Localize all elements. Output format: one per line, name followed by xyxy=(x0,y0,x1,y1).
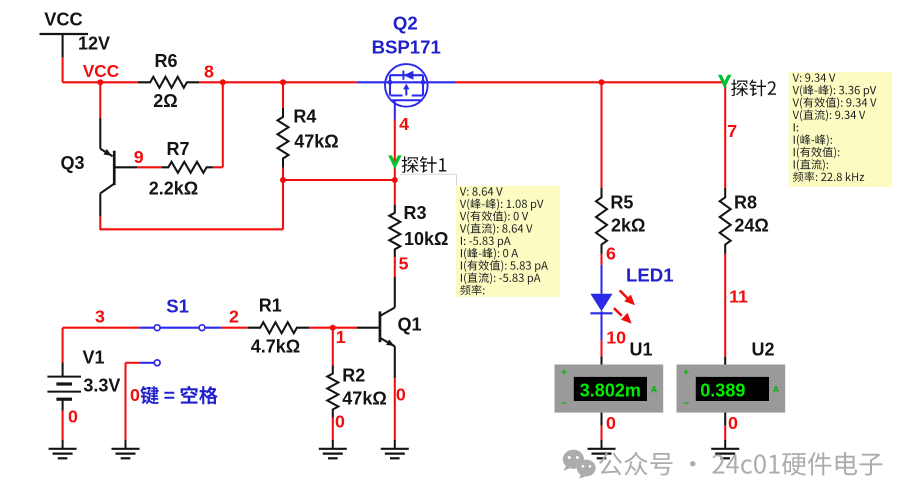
wire node 5 xyxy=(394,257,396,277)
svg-text:R6: R6 xyxy=(154,51,177,71)
junction R4 top xyxy=(280,79,286,85)
wire rail blue into Q2 xyxy=(357,81,385,83)
svg-text:R4: R4 xyxy=(293,107,316,127)
label key = space xyxy=(140,386,218,405)
wire Q3 collector down xyxy=(99,216,101,230)
LED LED1 xyxy=(590,265,673,341)
junction R4 bottom xyxy=(280,177,286,183)
svg-text:1: 1 xyxy=(336,327,346,347)
svg-text:0: 0 xyxy=(130,385,140,405)
wire R8 top xyxy=(724,82,726,188)
switch S1 xyxy=(140,296,222,331)
wire R4 bottom lead xyxy=(282,168,284,181)
svg-text:10kΩ: 10kΩ xyxy=(404,229,448,249)
svg-text:R2: R2 xyxy=(342,366,365,386)
svg-text:0: 0 xyxy=(396,384,406,404)
svg-text:24Ω: 24Ω xyxy=(734,216,768,236)
svg-text:4.7kΩ: 4.7kΩ xyxy=(251,336,300,356)
svg-text:7: 7 xyxy=(727,121,737,141)
svg-text:Q2: Q2 xyxy=(393,13,418,34)
svg-text:8: 8 xyxy=(204,62,214,82)
wire into U2 xyxy=(724,357,726,365)
wire R7 to node 8 xyxy=(213,82,223,167)
wire Q2 gate down xyxy=(394,120,396,180)
svg-text:2Ω: 2Ω xyxy=(153,91,177,111)
wire R5 top xyxy=(600,82,602,188)
svg-text:LED1: LED1 xyxy=(626,265,674,286)
ground V1 xyxy=(49,440,77,458)
svg-text:47kΩ: 47kΩ xyxy=(294,132,338,152)
svg-text:9: 9 xyxy=(134,147,144,167)
probe 探针2 xyxy=(718,75,776,96)
junction probe1 xyxy=(392,177,398,183)
ammeter U2 xyxy=(677,340,786,413)
svg-text:4: 4 xyxy=(399,114,409,134)
junction VCC/Q3 xyxy=(97,79,103,85)
wire node 9 xyxy=(137,166,162,168)
wire R2 top xyxy=(332,328,334,366)
svg-text:−: − xyxy=(561,399,567,410)
svg-text:3: 3 xyxy=(95,307,105,327)
svg-text:2kΩ: 2kΩ xyxy=(611,216,645,236)
svg-text:11: 11 xyxy=(729,287,748,307)
wire V1 top xyxy=(62,328,64,363)
ground R2 xyxy=(319,440,347,458)
ammeter U1 xyxy=(555,340,664,413)
ground U2 xyxy=(711,440,739,458)
watermark text xyxy=(599,452,883,476)
resistor R1 xyxy=(248,296,309,357)
probe1 data box xyxy=(456,186,560,297)
wire node 6 xyxy=(600,254,602,265)
svg-text:12V: 12V xyxy=(78,34,110,54)
transistor Q3 xyxy=(60,118,137,217)
wire top rail left xyxy=(63,81,138,83)
resistor R7 xyxy=(149,139,213,199)
svg-text:0: 0 xyxy=(606,413,616,433)
wire V1 bottom xyxy=(62,411,64,441)
power VCC 12V xyxy=(40,10,111,58)
svg-text:VCC: VCC xyxy=(44,10,82,30)
svg-text:0: 0 xyxy=(335,412,345,432)
wire R4 top lead xyxy=(282,82,284,108)
svg-text:V1: V1 xyxy=(83,348,105,368)
resistor R5 xyxy=(596,188,645,254)
battery V1 3.3V xyxy=(47,348,120,411)
svg-text:VCC: VCC xyxy=(83,61,119,81)
wire Q3 emitter up xyxy=(99,82,101,118)
resistor R4 xyxy=(278,107,339,168)
probe 探针1 xyxy=(388,155,446,173)
resistor R3 xyxy=(389,203,448,257)
svg-text:Q1: Q1 xyxy=(398,315,422,335)
resistor R2 xyxy=(327,366,386,418)
svg-text:6: 6 xyxy=(606,244,616,264)
svg-text:Q3: Q3 xyxy=(60,153,84,173)
svg-text:0: 0 xyxy=(728,413,738,433)
wire rail right to probe2 corner xyxy=(455,81,725,83)
wire node 2 xyxy=(222,327,248,329)
svg-text:2.2kΩ: 2.2kΩ xyxy=(149,179,198,199)
resistor R6 xyxy=(138,51,200,111)
wire node 8 rail xyxy=(199,81,356,83)
svg-text:+: + xyxy=(561,368,567,379)
wire node 1 xyxy=(309,327,356,329)
resistor R8 xyxy=(720,188,769,254)
wire up to R4 bottom node xyxy=(282,180,284,229)
watermark wechat icon xyxy=(563,450,596,479)
svg-text:0.389: 0.389 xyxy=(700,381,745,401)
wire node 3 xyxy=(63,327,140,329)
ground Q1 xyxy=(381,440,409,458)
junction R5 top xyxy=(599,79,605,85)
wire U1 to ground xyxy=(600,413,602,441)
svg-text:U2: U2 xyxy=(751,340,774,360)
svg-text:+: + xyxy=(683,368,689,379)
junction node 8 xyxy=(220,79,226,85)
wire rail blue out of Q2 xyxy=(428,81,455,83)
ground U1 xyxy=(588,440,616,458)
svg-text:S1: S1 xyxy=(166,296,189,317)
probe1 label box corner xyxy=(400,174,457,186)
svg-text:−: − xyxy=(683,399,689,410)
svg-text:3.802m: 3.802m xyxy=(580,381,641,401)
ground key xyxy=(112,440,140,458)
wire LED to U1 xyxy=(600,340,602,364)
junction node 1 xyxy=(330,325,336,331)
wire R3 top lead xyxy=(394,180,396,205)
svg-text:R3: R3 xyxy=(404,203,427,223)
svg-text:A: A xyxy=(651,385,658,395)
switch S1 lower throw xyxy=(140,360,160,366)
svg-text:R5: R5 xyxy=(610,193,633,213)
svg-text:BSP171: BSP171 xyxy=(372,37,441,58)
wire node to probe1 xyxy=(283,179,395,181)
wire node 11 xyxy=(724,254,726,357)
wire bottom feedback xyxy=(100,228,283,230)
svg-text:10: 10 xyxy=(606,328,626,348)
wire R2 bottom xyxy=(332,418,334,441)
svg-text:5: 5 xyxy=(399,254,409,274)
svg-text:R7: R7 xyxy=(166,139,189,159)
transistor Q1 xyxy=(357,277,422,378)
svg-text:47kΩ: 47kΩ xyxy=(342,389,386,409)
svg-text:2: 2 xyxy=(229,307,239,327)
wire U2 to ground xyxy=(724,413,726,441)
svg-text:3.3V: 3.3V xyxy=(83,376,120,396)
svg-text:U1: U1 xyxy=(629,340,652,360)
wire key to ground xyxy=(126,363,141,441)
transistor Q2 BSP171 xyxy=(372,13,441,120)
probe2 data box xyxy=(789,72,892,187)
wire Q1 emitter to ground xyxy=(394,378,396,440)
wire VCC lead xyxy=(62,58,64,83)
svg-text:A: A xyxy=(773,385,780,395)
svg-text:R8: R8 xyxy=(734,193,757,213)
svg-text:0: 0 xyxy=(68,407,78,427)
svg-text:R1: R1 xyxy=(259,296,282,316)
